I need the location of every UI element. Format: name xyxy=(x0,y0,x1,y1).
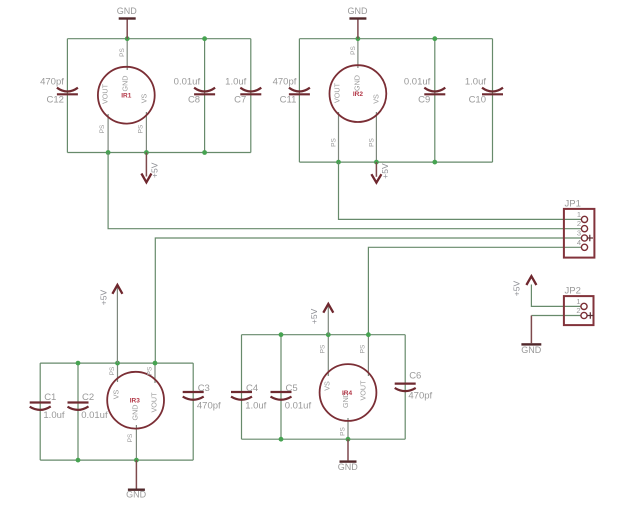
ground GND (block4 bottom) xyxy=(338,439,359,472)
ground GND (block3 bottom) xyxy=(126,460,147,499)
junction block2 top GND xyxy=(356,36,361,41)
svg-text:C10: C10 xyxy=(469,95,486,106)
svg-text:C12: C12 xyxy=(46,95,63,106)
svg-text:GND: GND xyxy=(521,345,542,355)
svg-text:C9: C9 xyxy=(418,95,430,106)
svg-text:+5V: +5V xyxy=(512,280,522,296)
svg-text:C7: C7 xyxy=(234,95,246,106)
svg-text:0.01uf: 0.01uf xyxy=(81,410,108,421)
junction block1 top C8 xyxy=(202,36,207,41)
svg-text:PS: PS xyxy=(147,366,154,375)
wire: IR1 pin stub top xyxy=(126,39,128,70)
svg-text:PS: PS xyxy=(319,344,326,353)
svg-text:+5V: +5V xyxy=(309,308,319,324)
wire: IR3 pin stub top-right xyxy=(154,363,156,383)
svg-text:470pf: 470pf xyxy=(197,400,221,411)
wire: block1 top GND rail xyxy=(67,38,250,40)
svg-text:1.0uf: 1.0uf xyxy=(43,410,64,421)
ground GND (JP2) xyxy=(521,316,542,356)
origin cross xyxy=(587,235,593,241)
svg-text:IR2: IR2 xyxy=(353,91,364,98)
ground GND (block1 top) xyxy=(117,6,138,39)
capacitor C2, 0.01uf xyxy=(68,392,108,421)
svg-text:PS: PS xyxy=(360,344,367,353)
wire: IR2 pin stub bottom-left xyxy=(338,112,340,162)
wire: block4 bottom rail xyxy=(242,438,406,440)
svg-text:470pf: 470pf xyxy=(408,391,432,402)
junction block2 bottom +5V pin xyxy=(374,160,379,165)
wire: IR4 pin stub top-right xyxy=(367,335,369,376)
pin 4 xyxy=(581,244,587,250)
junction block3 top C2 xyxy=(76,361,81,366)
svg-text:PS: PS xyxy=(127,433,134,442)
pin 2 xyxy=(581,226,587,232)
wire: IR3 pin stub top-left xyxy=(117,363,119,382)
svg-text:C11: C11 xyxy=(280,95,297,106)
+5V supply arrow (block3, up) xyxy=(98,285,122,363)
svg-text:0.01uf: 0.01uf xyxy=(285,400,312,411)
+5V supply arrow (JP2, up) xyxy=(512,276,537,296)
svg-text:PS: PS xyxy=(119,48,126,57)
svg-text:JP2: JP2 xyxy=(565,286,581,297)
svg-text:GND: GND xyxy=(131,405,140,421)
svg-text:PS: PS xyxy=(109,366,116,375)
pin 2 xyxy=(581,312,587,318)
wire: block1 left vertical (C12 branch) xyxy=(66,39,68,153)
svg-text:4: 4 xyxy=(577,238,581,247)
svg-text:2: 2 xyxy=(576,306,580,315)
svg-text:1.0uf: 1.0uf xyxy=(225,77,246,88)
wire: block1 C8 branch xyxy=(204,39,206,153)
svg-text:JP1: JP1 xyxy=(565,198,581,209)
svg-text:GND: GND xyxy=(117,6,138,16)
pin 3 xyxy=(581,235,587,241)
svg-text:IR1: IR1 xyxy=(121,93,132,100)
svg-text:C8: C8 xyxy=(188,95,200,106)
svg-text:VOUT: VOUT xyxy=(359,380,368,401)
capacitor C1, 1.0uf xyxy=(30,392,65,421)
svg-text:C6: C6 xyxy=(409,371,421,382)
svg-text:PS: PS xyxy=(350,46,357,55)
svg-text:+5V: +5V xyxy=(380,163,390,179)
svg-text:0.01uf: 0.01uf xyxy=(174,77,201,88)
svg-text:1.0uf: 1.0uf xyxy=(465,77,486,88)
svg-text:GND: GND xyxy=(348,6,369,16)
svg-text:VS: VS xyxy=(139,94,148,104)
capacitor C5, 0.01uf xyxy=(271,383,312,411)
svg-text:C4: C4 xyxy=(246,383,258,394)
svg-text:IR4: IR4 xyxy=(342,390,353,397)
capacitor C12, 470pf xyxy=(40,77,78,106)
junction block3 top net3 pin xyxy=(153,361,158,366)
svg-text:2: 2 xyxy=(577,219,581,228)
svg-text:3: 3 xyxy=(577,229,581,238)
junction block4 top net4 pin xyxy=(366,332,371,337)
svg-text:0.01uf: 0.01uf xyxy=(404,77,431,88)
svg-text:PS: PS xyxy=(331,138,338,147)
wire: IR2 pin stub top xyxy=(357,39,359,68)
wire: IR4 pin stub top-left xyxy=(327,335,329,376)
capacitor C6, 470pf xyxy=(395,371,433,402)
junction block4 bottom GND pin xyxy=(346,437,351,442)
wire: block3 C2 branch xyxy=(77,363,79,460)
connector JP2 xyxy=(564,286,594,326)
wire: net3 JP1 pin3 to IR3 xyxy=(155,238,581,363)
svg-text:VS: VS xyxy=(371,94,380,104)
wire: block3 left vertical (C1 branch) xyxy=(39,363,41,460)
wire: net4 JP1 pin4 to IR4 xyxy=(368,247,581,334)
wire: block3 top rail xyxy=(40,362,193,364)
wire: block2 bottom rail xyxy=(299,161,492,163)
svg-text:GND: GND xyxy=(338,462,359,472)
svg-text:C3: C3 xyxy=(198,383,210,394)
IR sensor IR3 xyxy=(107,366,164,442)
junction block2 top C9 xyxy=(432,36,437,41)
svg-text:VOUT: VOUT xyxy=(150,392,159,413)
svg-text:PS: PS xyxy=(99,124,106,133)
wire: block3 bottom rail xyxy=(40,459,193,461)
junction block3 bottom GND pin xyxy=(134,458,139,463)
+5V supply arrow (block1, down) xyxy=(141,153,159,183)
+5V supply arrow (block2, down) xyxy=(371,162,389,183)
capacitor C10, 1.0uf xyxy=(465,77,503,106)
junction block1 bottom-left pin xyxy=(106,150,111,155)
wire: JP2 pin1 to +5V xyxy=(531,285,581,307)
connector JP1 xyxy=(564,198,595,257)
svg-text:C1: C1 xyxy=(44,392,56,403)
capacitor C7, 1.0uf xyxy=(225,77,261,106)
svg-text:VOUT: VOUT xyxy=(101,83,110,104)
ground GND (block2 top) xyxy=(348,6,369,39)
pin 1 xyxy=(581,303,587,309)
svg-text:PS: PS xyxy=(369,138,376,147)
wire: block2 top GND rail xyxy=(299,38,492,40)
junction block4 top +5V pin xyxy=(326,332,331,337)
pin 1 xyxy=(581,216,587,222)
svg-text:1.0uf: 1.0uf xyxy=(245,400,266,411)
wire: block4 top rail xyxy=(242,334,406,336)
svg-text:GND: GND xyxy=(126,489,147,499)
svg-text:PS: PS xyxy=(137,124,144,133)
wire: block4 left vertical (C4 branch) xyxy=(241,335,243,440)
IR sensor IR4 xyxy=(319,344,376,436)
svg-text:VS: VS xyxy=(322,381,331,391)
capacitor C11, 470pf xyxy=(273,77,310,106)
IR sensor IR1 xyxy=(98,48,155,134)
junction block1 top GND xyxy=(125,36,130,41)
wire: JP2 pin2 to GND xyxy=(531,315,581,317)
wire: net1 IR2 to JP1 pin1 xyxy=(339,162,582,219)
IR sensor IR2 xyxy=(330,46,387,147)
wire: block3 right vertical (C3 branch) xyxy=(192,363,194,460)
svg-text:VOUT: VOUT xyxy=(332,82,341,103)
svg-text:IR3: IR3 xyxy=(130,398,141,405)
svg-text:470pf: 470pf xyxy=(273,77,297,88)
junction block3 bottom C2 xyxy=(76,458,81,463)
capacitor C3, 470pf xyxy=(183,383,221,411)
junction block2 bottom C9 xyxy=(432,160,437,165)
wire: net2 IR1 to JP1 pin2 xyxy=(108,153,581,229)
origin cross xyxy=(587,312,593,318)
svg-text:C2: C2 xyxy=(82,392,94,403)
junction block4 bottom C5 xyxy=(279,437,284,442)
junction block1 bottom C8 xyxy=(202,150,207,155)
capacitor C4, 1.0uf xyxy=(231,383,267,411)
svg-text:GND: GND xyxy=(121,76,130,92)
wire: block1 bottom rail xyxy=(67,152,250,154)
junction block2 bottom-left pin xyxy=(336,160,341,165)
svg-text:+5V: +5V xyxy=(98,289,108,305)
wire: IR1 pin stub bottom-right xyxy=(145,112,147,153)
junction block1 bottom +5V pin xyxy=(144,150,149,155)
capacitor C9, 0.01uf xyxy=(404,77,445,106)
svg-text:1: 1 xyxy=(577,210,581,219)
svg-text:C5: C5 xyxy=(286,383,298,394)
svg-text:VS: VS xyxy=(111,390,120,400)
svg-text:1: 1 xyxy=(576,297,580,306)
svg-text:470pf: 470pf xyxy=(40,77,64,88)
wire: block4 C5 branch xyxy=(280,335,282,440)
wire: block2 right vertical (C10 branch) xyxy=(492,39,494,162)
wire: IR2 pin stub bottom-right xyxy=(375,112,377,162)
wire: IR4 pin stub bottom xyxy=(347,418,349,439)
wire: IR1 pin stub bottom-left xyxy=(107,114,109,153)
capacitor C8, 0.01uf xyxy=(174,77,215,106)
svg-text:+5V: +5V xyxy=(150,162,160,178)
wire: block1 right vertical (C7 branch) xyxy=(250,39,252,153)
wire: block4 right vertical (C6 branch) xyxy=(404,335,406,440)
junction block3 top +5V pin xyxy=(115,361,120,366)
+5V supply arrow (block4, up) xyxy=(309,304,333,335)
wire: IR3 pin stub bottom xyxy=(135,425,137,460)
junction block4 top C5 xyxy=(279,332,284,337)
svg-text:PS: PS xyxy=(340,427,347,436)
wire: block2 C9 branch xyxy=(434,39,436,162)
svg-text:GND: GND xyxy=(352,75,361,91)
wire: block2 left vertical (C11 branch) xyxy=(298,39,300,162)
